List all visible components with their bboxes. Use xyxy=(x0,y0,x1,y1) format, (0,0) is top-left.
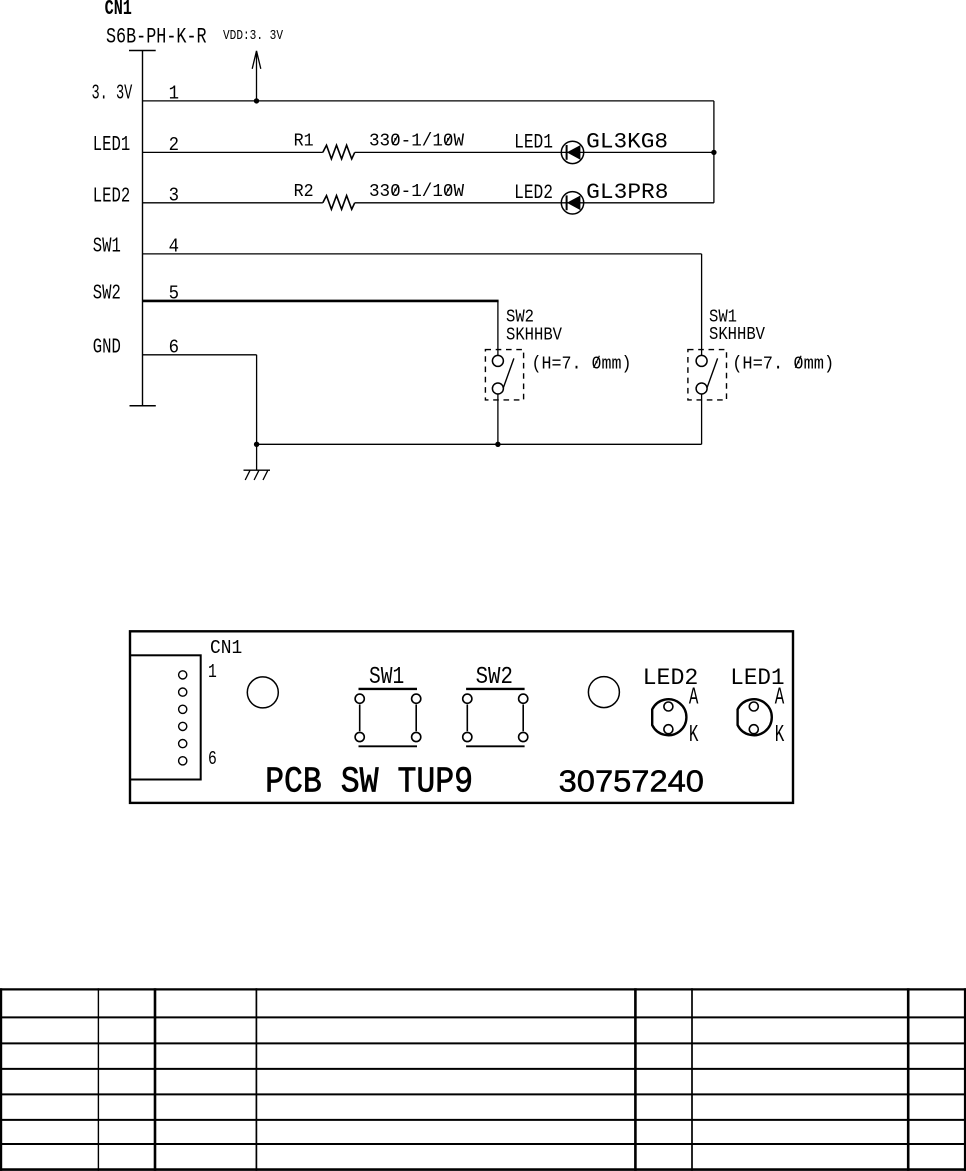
svg-text:SKHHBV: SKHHBV xyxy=(709,325,765,345)
switch SW1 symbol xyxy=(696,355,718,394)
resistor R1 zigzag xyxy=(323,145,355,159)
switch SW2 symbol xyxy=(492,355,514,394)
PCB outline rectangle xyxy=(130,631,793,803)
title block table vertical lines xyxy=(1,988,965,1171)
connector CN1 top tick xyxy=(129,50,156,52)
svg-text:CN1: CN1 xyxy=(210,637,242,659)
svg-text:SW2: SW2 xyxy=(93,283,121,306)
connector CN1 body vertical line xyxy=(142,51,144,406)
PCB mounting hole right xyxy=(588,677,619,708)
connector CN1 bottom tick xyxy=(130,405,156,407)
VDD supply arrow xyxy=(252,51,261,101)
svg-text:K: K xyxy=(775,722,785,749)
svg-text:330-1/10W: 330-1/10W xyxy=(369,181,465,202)
svg-text:A: A xyxy=(775,685,785,712)
wire pin4 SW1 line xyxy=(143,254,702,356)
svg-text:SW2: SW2 xyxy=(506,308,534,328)
wire pin3 LED2 line xyxy=(143,202,714,204)
title block table horizontal lines xyxy=(0,989,966,1169)
svg-text:S6B-PH-K-R: S6B-PH-K-R xyxy=(106,24,207,49)
switch SW1 dashed box xyxy=(688,350,727,400)
svg-text:R1: R1 xyxy=(294,131,314,152)
junction dot SW2 on ground rail xyxy=(495,442,500,447)
svg-text:A: A xyxy=(689,685,699,712)
PCB connector pin holes xyxy=(179,671,187,765)
PCB connector CN1 box xyxy=(130,655,201,779)
wire pin6 GND xyxy=(143,355,257,445)
svg-text:SW1: SW1 xyxy=(93,236,121,259)
wire ground stem xyxy=(256,444,258,470)
svg-text:330-1/10W: 330-1/10W xyxy=(369,131,465,152)
junction dot GND drop xyxy=(254,442,259,447)
wire pin2 LED1 line xyxy=(143,151,714,153)
wire SW2 drop vertical xyxy=(497,301,499,356)
svg-text:VDD:3. 3V: VDD:3. 3V xyxy=(223,28,283,44)
diode LED1 symbol xyxy=(561,141,583,163)
svg-text:(H=7. 0mm): (H=7. 0mm) xyxy=(732,354,834,375)
svg-text:LED1: LED1 xyxy=(93,134,130,157)
PCB mounting hole left xyxy=(247,677,278,708)
resistor R2 zigzag xyxy=(323,196,355,210)
svg-text:SKHHBV: SKHHBV xyxy=(506,326,562,346)
svg-text:6: 6 xyxy=(208,748,217,770)
PCB switch SW1 footprint xyxy=(355,689,421,746)
svg-text:GND: GND xyxy=(93,336,121,359)
wire SW2 bottom to rail xyxy=(497,394,499,444)
svg-text:PCB SW TUP9: PCB SW TUP9 xyxy=(265,762,473,803)
ground symbol xyxy=(244,470,271,480)
junction dot VDD on pin1 wire xyxy=(254,98,259,103)
svg-text:1: 1 xyxy=(208,661,217,683)
wire ground rail horizontal xyxy=(257,443,702,445)
svg-text:GL3PR8: GL3PR8 xyxy=(586,180,668,205)
wire pin1 3.3V rail horizontal xyxy=(143,100,714,102)
svg-text:CN1: CN1 xyxy=(105,0,132,21)
switch SW2 dashed box xyxy=(485,350,523,400)
PCB switch SW2 footprint xyxy=(463,689,528,746)
wire right rail vertical xyxy=(713,101,715,203)
slashed zeros overlay xyxy=(393,135,802,368)
junction dot LED1 wire to rail xyxy=(711,150,716,155)
wire pin5 SW2 line thick xyxy=(143,300,499,303)
diode LED2 symbol xyxy=(561,192,583,214)
svg-text:SW2: SW2 xyxy=(476,664,513,691)
svg-text:LED2: LED2 xyxy=(514,182,553,205)
svg-text:SW1: SW1 xyxy=(369,664,404,691)
svg-text:30757240: 30757240 xyxy=(559,764,704,799)
svg-text:R2: R2 xyxy=(294,181,314,202)
svg-text:GL3KG8: GL3KG8 xyxy=(586,130,668,155)
svg-text:3. 3V: 3. 3V xyxy=(92,83,133,106)
svg-text:(H=7. 0mm): (H=7. 0mm) xyxy=(532,354,632,375)
svg-text:K: K xyxy=(689,722,699,749)
wire SW1 bottom to rail xyxy=(701,394,703,444)
PCB LED1 footprint xyxy=(738,699,772,735)
PCB LED2 footprint xyxy=(652,699,686,735)
svg-text:LED2: LED2 xyxy=(93,185,130,208)
svg-text:LED1: LED1 xyxy=(514,132,553,155)
